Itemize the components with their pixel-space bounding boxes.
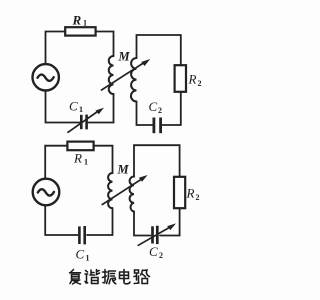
svg-text:2: 2 <box>159 251 163 260</box>
inductor L1 / left coil (bottom circuit) <box>108 173 112 208</box>
svg-text:R: R <box>72 13 82 28</box>
capacitor C1 (top circuit, variable) <box>81 115 86 130</box>
svg-text:1: 1 <box>79 105 83 114</box>
inductor L1 / left coil (top circuit) <box>109 56 114 94</box>
resistor R1 (top circuit) <box>65 27 95 35</box>
svg-text:2: 2 <box>198 79 202 88</box>
wire: top circuit left loop top <box>46 32 114 64</box>
resistor R2 (bottom circuit) <box>174 177 185 208</box>
svg-text:1: 1 <box>83 19 87 28</box>
svg-text:1: 1 <box>84 158 88 167</box>
svg-text:C: C <box>76 247 85 262</box>
wire: top circuit left loop bottom <box>46 91 114 123</box>
inductor L2 / right coil (top circuit) <box>131 58 137 102</box>
svg-text:2: 2 <box>196 193 200 202</box>
char 谐 <box>85 270 100 284</box>
svg-text:1: 1 <box>86 254 90 263</box>
arrow through C2 (bottom circuit) <box>138 227 171 246</box>
svg-text:C: C <box>149 244 158 259</box>
svg-text:2: 2 <box>158 106 162 115</box>
resistor R1 (bottom circuit) <box>67 142 93 151</box>
svg-text:C: C <box>149 99 158 114</box>
resistor R2 (top circuit) <box>175 65 186 92</box>
capacitor C2 (top circuit) <box>154 118 161 134</box>
arrow M variable coupling (bottom circuit) <box>102 179 142 205</box>
svg-text:M: M <box>117 163 130 177</box>
arrow through C1 (top circuit) <box>68 111 99 133</box>
wire: bottom circuit left loop bottom <box>45 206 112 235</box>
char 振 <box>103 270 116 284</box>
arrowhead M (top) <box>141 59 150 66</box>
AC source (bottom circuit) <box>33 179 60 206</box>
capacitor C1 (bottom circuit) <box>79 226 84 244</box>
char 电 <box>120 270 131 284</box>
inductor L2 / right coil (bottom circuit) <box>130 177 134 212</box>
svg-text:C: C <box>69 99 78 114</box>
svg-text:R: R <box>188 72 197 87</box>
arrowhead C1 (top) <box>96 108 105 115</box>
wire: bottom circuit left loop top <box>45 146 112 178</box>
svg-text:M: M <box>118 50 131 64</box>
wire: top circuit right loop <box>137 35 181 125</box>
arrowhead C2 (bottom) <box>167 223 176 230</box>
char 路 <box>134 270 150 284</box>
caption 复谐振电路 (hand-drawn strokes) <box>70 270 150 285</box>
capacitor C2 (bottom circuit, variable) <box>153 226 158 244</box>
svg-text:R: R <box>73 151 82 166</box>
wire: bottom circuit right loop <box>134 145 180 235</box>
AC source (top circuit) <box>33 64 59 90</box>
char 复 <box>70 270 81 285</box>
arrowhead M (bottom) <box>139 175 148 182</box>
arrow M variable coupling (top circuit) <box>102 62 146 90</box>
svg-text:R: R <box>186 186 195 201</box>
